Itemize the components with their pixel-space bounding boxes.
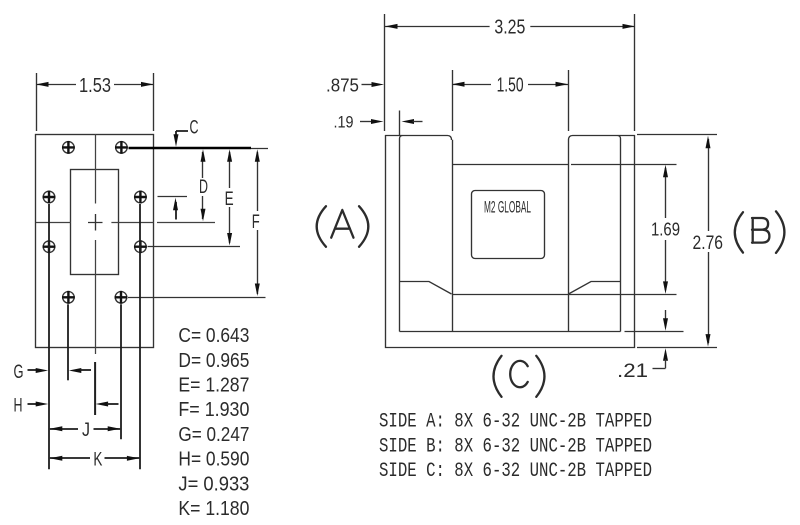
left view: horizontal centerline	[36, 222, 215, 224]
svg-text:H= 0.590: H= 0.590	[178, 449, 249, 471]
svg-text:E: E	[225, 189, 234, 210]
dimension K: dimension line with arrows	[50, 457, 90, 459]
right view: cavity top edge + 1.69 extension	[452, 164, 568, 166]
label (A) side A	[317, 206, 326, 247]
svg-text:G= 0.247: G= 0.247	[178, 424, 249, 446]
datum line C (thick) from top-right hole	[129, 147, 252, 150]
svg-text:.19: .19	[334, 113, 354, 132]
svg-text:1.50: 1.50	[497, 74, 524, 96]
svg-text:F: F	[252, 212, 260, 233]
svg-text:D: D	[199, 177, 208, 198]
small arrow to row-2 hole line (x=175.5)	[175, 202, 177, 220]
right view: left ledge and chamfer	[400, 282, 452, 295]
extension line row-4 holes (y=297.3)	[128, 297, 266, 299]
dimension G: arrows	[28, 369, 38, 371]
right view: right ledge and chamfer	[569, 282, 621, 295]
right view: inner bottom (y=331.5)	[400, 331, 621, 333]
right view: inner right wall (x=620.5)	[618, 136, 621, 332]
svg-text:K: K	[93, 449, 102, 470]
dimension .21: arrows and leader	[665, 310, 667, 319]
mounting hole 6 (6-32 UNC-2B tapped)	[135, 241, 147, 253]
svg-text:H: H	[14, 395, 23, 416]
svg-text:J: J	[82, 420, 90, 441]
left view: waveguide aperture opening	[71, 170, 119, 275]
svg-text:E= 1.287: E= 1.287	[178, 375, 249, 397]
mounting hole 1 (6-32 UNC-2B tapped)	[63, 142, 75, 154]
svg-text:F= 1.930: F= 1.930	[178, 399, 249, 421]
svg-text:D= 0.965: D= 0.965	[178, 350, 249, 372]
right view: slot left wall (x=452)	[452, 140, 454, 332]
hole leader line from left mid holes (x=48.7)	[48, 204, 50, 469]
right view: top edge right ear with fillet	[569, 136, 636, 141]
dimension 1.50: extension lines	[452, 70, 454, 131]
dimension 1.69: dimension line with arrows	[665, 168, 667, 218]
dimension 2.76: extension lines	[637, 134, 717, 136]
left view: waveguide flange outline	[36, 135, 154, 348]
svg-text:.875: .875	[326, 76, 359, 96]
extension line row-2 holes (y=197)	[158, 196, 188, 198]
right view: cavity bottom edge + 1.69 extension	[452, 294, 568, 296]
svg-text:SIDE C: 8X 6-32 UNC-2B TAPPED: SIDE C: 8X 6-32 UNC-2B TAPPED	[379, 460, 652, 483]
dimension 2.76: dimension line with arrows	[708, 139, 710, 231]
label (C) side C	[494, 356, 502, 397]
left view: vertical centerline	[95, 134, 97, 415]
mounting hole 2 (6-32 UNC-2B tapped)	[116, 142, 128, 154]
dimension F: vertical dimension line with arrows	[257, 152, 259, 211]
svg-text:SIDE A: 8X 6-32 UNC-2B TAPPED: SIDE A: 8X 6-32 UNC-2B TAPPED	[379, 411, 652, 434]
svg-text:G: G	[14, 362, 24, 383]
dimension 1.53: extension lines	[36, 73, 38, 131]
hole leader line from bottom-right hole (x=121)	[120, 304, 122, 439]
svg-text:SIDE B: 8X 6-32 UNC-2B TAPPED: SIDE B: 8X 6-32 UNC-2B TAPPED	[379, 435, 652, 458]
mounting hole 8 (6-32 UNC-2B tapped)	[115, 292, 127, 304]
svg-text:1.69: 1.69	[651, 220, 680, 240]
label (B) side B	[735, 212, 743, 252]
svg-text:C= 0.643: C= 0.643	[178, 325, 249, 347]
dimension 3.25: dimension line with arrows	[385, 26, 490, 28]
mounting hole 3 (6-32 UNC-2B tapped)	[43, 191, 55, 203]
hole leader line from right mid holes (x=140.3)	[139, 204, 141, 469]
svg-text:M2 GLOBAL: M2 GLOBAL	[484, 198, 531, 217]
mounting hole 7 (6-32 UNC-2B tapped)	[63, 292, 75, 304]
svg-text:3.25: 3.25	[494, 16, 525, 38]
dimension D: vertical dimension line with arrows	[202, 152, 204, 178]
dimension C: leader with arrow	[176, 131, 188, 140]
right view: channel outer outline	[386, 135, 635, 348]
centerline leader below flange (x=95)	[94, 362, 96, 415]
right view: slot right wall (x=568)	[568, 140, 570, 332]
dimension 1.53: dimension line with arrows	[36, 84, 76, 86]
left view: aperture center cross	[88, 214, 103, 231]
svg-text:.21: .21	[617, 361, 648, 382]
dimension H: arrows	[28, 403, 38, 405]
mounting hole 4 (6-32 UNC-2B tapped)	[135, 191, 147, 203]
label plate M2 GLOBAL	[472, 191, 545, 259]
dimension .19: extension line	[399, 111, 401, 136]
svg-text:C: C	[190, 118, 199, 139]
dimension E: vertical dimension line with arrows	[229, 152, 231, 188]
extension line row-3 holes (y=246.7)	[148, 246, 241, 248]
mounting hole 5 (6-32 UNC-2B tapped)	[43, 241, 55, 253]
dimension J: dimension line with arrows	[50, 428, 78, 430]
dimension 1.50: dimension line with arrows	[452, 84, 491, 86]
svg-text:2.76: 2.76	[693, 232, 724, 254]
hole leader line from bottom-left hole (x=68.3)	[67, 304, 69, 380]
dimension 3.25: extension lines	[384, 14, 386, 131]
dimension .21: extension line	[625, 331, 684, 333]
svg-text:1.53: 1.53	[79, 75, 111, 97]
right view: top edge left ear with fillet	[385, 136, 452, 141]
svg-text:K= 1.180: K= 1.180	[178, 498, 249, 520]
svg-text:J= 0.933: J= 0.933	[178, 473, 249, 495]
right view: inner left wall (x=399.5)	[400, 136, 403, 332]
